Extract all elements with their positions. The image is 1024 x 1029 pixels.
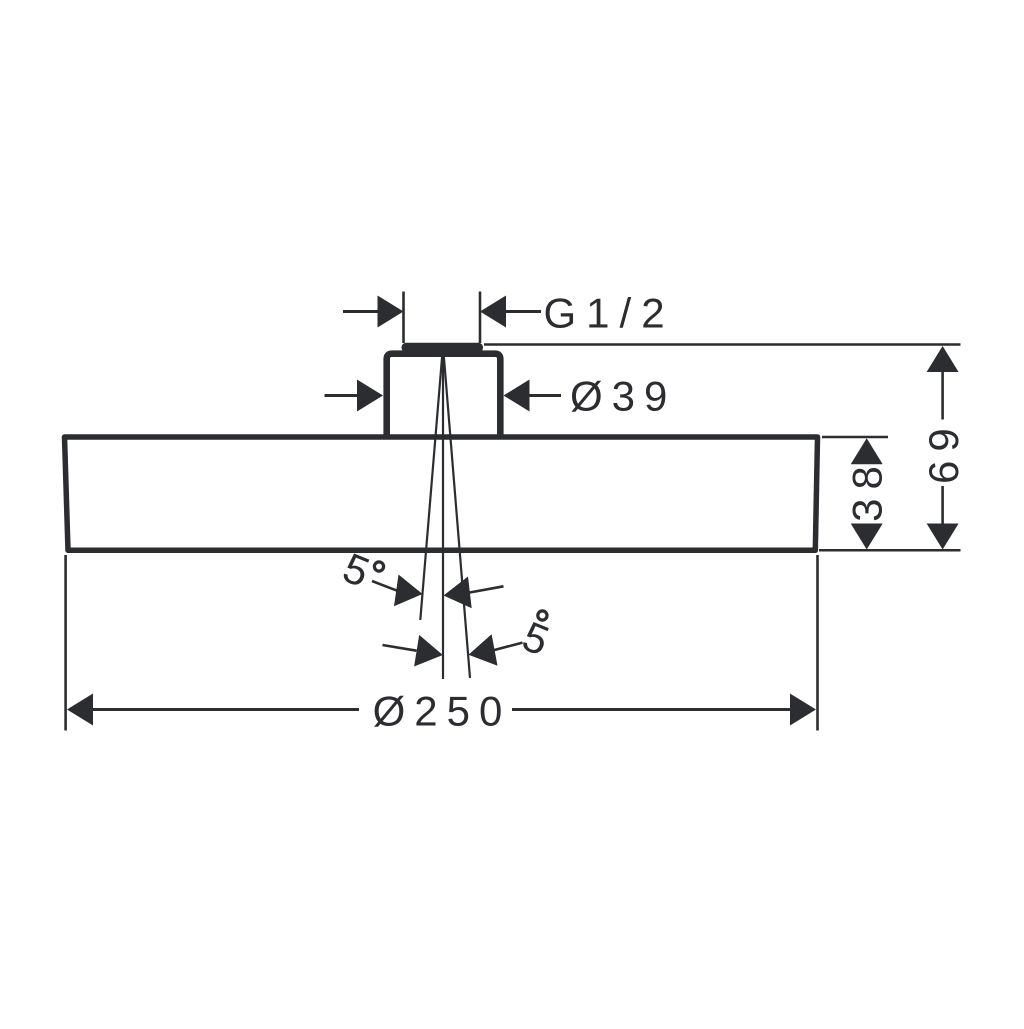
lower 5deg right arrowhead bbox=[469, 634, 498, 666]
O250 extension line left bbox=[64, 555, 67, 731]
thread cap bbox=[403, 344, 482, 350]
upper 5deg leader bbox=[372, 581, 398, 591]
69/38 bottom extension line bbox=[819, 549, 961, 552]
O250 dimension line right segment bbox=[512, 708, 791, 711]
O39 left arrow tail bbox=[325, 394, 359, 397]
center line vertical bbox=[442, 346, 444, 679]
G1/2 right arrowhead bbox=[480, 296, 506, 328]
38 bottom arrowhead bbox=[851, 524, 883, 550]
O250 right arrowhead bbox=[790, 694, 816, 726]
upper 5deg right tail bbox=[469, 586, 504, 592]
lower 5deg degree mark bbox=[538, 611, 547, 620]
O39 left arrowhead bbox=[357, 380, 383, 412]
38 top arrowhead bbox=[851, 438, 883, 464]
upper 5deg left arrowhead bbox=[394, 575, 423, 607]
upper 5deg degree mark bbox=[374, 562, 383, 571]
svg-text:38: 38 bbox=[844, 457, 891, 522]
center line right tilted 5deg bbox=[443, 346, 470, 678]
G1/2 extension line right bbox=[479, 292, 482, 344]
svg-text:G1/2: G1/2 bbox=[544, 290, 675, 337]
svg-text:69: 69 bbox=[920, 419, 967, 484]
lower 5deg left tail bbox=[383, 645, 417, 651]
69 top extension line bbox=[484, 343, 961, 346]
lower 5deg right tail bbox=[494, 643, 523, 651]
G1/2 left arrowhead bbox=[378, 296, 404, 328]
69 dimension line lower segment bbox=[941, 486, 944, 525]
G1/2 right arrow tail bbox=[505, 310, 541, 313]
G1/2 extension line left bbox=[402, 292, 405, 344]
G1/2 left arrow tail bbox=[343, 310, 379, 313]
O250 extension line right bbox=[816, 555, 819, 731]
O39 right arrow tail bbox=[529, 394, 562, 397]
69 top arrowhead bbox=[927, 346, 959, 372]
upper 5deg right arrowhead bbox=[444, 577, 472, 609]
69 dimension line upper segment bbox=[941, 371, 944, 420]
lower 5deg left arrowhead bbox=[414, 635, 443, 667]
38 top extension line bbox=[822, 436, 888, 439]
O250 left arrowhead bbox=[67, 694, 93, 726]
center line left tilted 5deg bbox=[420, 346, 443, 620]
connector block bbox=[387, 354, 501, 439]
shower plate body bbox=[65, 437, 818, 550]
O39 right arrowhead bbox=[504, 380, 530, 412]
svg-text:Ø250: Ø250 bbox=[373, 688, 512, 735]
O250 dimension line left segment bbox=[92, 708, 359, 711]
svg-text:Ø39: Ø39 bbox=[570, 373, 676, 420]
69 bottom arrowhead bbox=[927, 524, 959, 550]
